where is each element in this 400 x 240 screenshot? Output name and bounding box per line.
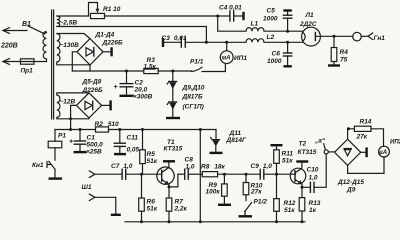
- ground bar (Д11): [210, 152, 223, 154]
- svg-text:~12В: ~12В: [60, 98, 76, 105]
- node C2 junction: [125, 70, 128, 73]
- svg-text:Д5-Д8: Д5-Д8: [82, 79, 102, 86]
- svg-text:75: 75: [340, 57, 348, 64]
- resistor R10: [243, 174, 249, 200]
- wire bridge1 right stub: [103, 51, 111, 53]
- node R13 bus junction: [301, 220, 304, 223]
- capacitor C5: [283, 11, 291, 31]
- svg-text:Д226Б: Д226Б: [82, 87, 104, 94]
- svg-text:~2,5В: ~2,5В: [60, 20, 78, 27]
- svg-text:51к: 51к: [147, 158, 158, 165]
- node R9 junction: [223, 173, 226, 176]
- label R6 51к: [147, 199, 158, 213]
- svg-text:„а“: „а“: [314, 138, 326, 145]
- svg-text:Д9,Д10: Д9,Д10: [182, 85, 205, 92]
- wire L2 to tube: [264, 41, 303, 43]
- wire bridge3 right stub: [361, 151, 366, 153]
- wire R8 to C9: [218, 173, 261, 175]
- node "а": [324, 144, 329, 154]
- svg-text:Д226Б: Д226Б: [102, 40, 124, 47]
- relay contact P1/1: [192, 67, 203, 71]
- node C1 junction: [79, 128, 82, 131]
- svg-text:1,0: 1,0: [309, 175, 318, 182]
- inductor L1: [246, 28, 264, 32]
- label R13 1к: [309, 200, 321, 214]
- label С1 500,0 х25В: [86, 134, 103, 155]
- svg-text:~130В: ~130В: [60, 42, 80, 49]
- resistor R1 (rheostat): [89, 3, 105, 19]
- connector Ш1 pin 1: [89, 171, 122, 178]
- node IP1 junction: [225, 41, 228, 44]
- svg-text:220В: 220В: [0, 43, 18, 50]
- label С5 1000: [263, 8, 278, 23]
- svg-text:L2: L2: [267, 34, 275, 41]
- svg-text:51к: 51к: [282, 157, 293, 164]
- wire bridge2 right stub: [102, 104, 110, 106]
- label С8 1,0: [185, 156, 195, 170]
- svg-text:1000: 1000: [267, 58, 282, 65]
- wire heater line 2 bend to anode line: [205, 27, 207, 43]
- svg-text:2,2к: 2,2к: [174, 206, 188, 213]
- node zener junction: [171, 70, 174, 73]
- svg-text:мА: мА: [222, 56, 231, 62]
- node C11 junction: [118, 128, 121, 131]
- resistor R12: [274, 174, 280, 222]
- svg-text:27к: 27к: [250, 188, 262, 195]
- wire 220V top with arrow: [3, 28, 27, 34]
- zener diode Д10: [167, 102, 176, 110]
- winding ~130В: [57, 34, 60, 63]
- label Т2 КТ315: [298, 140, 317, 156]
- ground bar (Кн1): [49, 177, 63, 179]
- svg-text:(СГ1П): (СГ1П): [183, 104, 204, 111]
- svg-text:100к: 100к: [206, 188, 221, 195]
- svg-text:Д9: Д9: [346, 186, 356, 193]
- wire R14 to meter ИП2: [371, 129, 384, 147]
- node R4 junction: [333, 35, 336, 38]
- svg-text:27к: 27к: [356, 134, 368, 141]
- svg-text:500,0: 500,0: [87, 141, 104, 148]
- capacitor C8: [178, 169, 202, 179]
- wire contact to meter: [202, 64, 225, 72]
- svg-text:С1: С1: [87, 134, 96, 141]
- wire low DC rail: [55, 129, 96, 131]
- winding ~12В: [57, 95, 60, 118]
- capacitor C4: [218, 11, 243, 21]
- svg-text:Д1-Д4: Д1-Д4: [95, 32, 115, 39]
- resistor R9: [222, 174, 228, 204]
- push button Кн1: [47, 161, 55, 178]
- wire node a to bridge3: [328, 151, 334, 153]
- svg-text:В1: В1: [22, 21, 31, 28]
- svg-text:Р1/1: Р1/1: [190, 59, 204, 66]
- label R12 51к: [284, 200, 296, 214]
- wire DC rail 140V: [72, 70, 144, 72]
- svg-text:1,0: 1,0: [186, 163, 195, 170]
- chassis bar (R9): [218, 204, 231, 206]
- diode bridge Д1-Д4: [77, 39, 103, 65]
- wire anode/filament line C3 to L2: [185, 41, 246, 43]
- svg-text:Д12-Д15: Д12-Д15: [337, 179, 364, 186]
- node bridge2 rail junction: [69, 128, 72, 131]
- svg-text:КТ315: КТ315: [164, 146, 183, 153]
- wire heater line top (2.5V to R1): [57, 15, 89, 17]
- svg-text:Д11: Д11: [229, 130, 242, 137]
- chassis bar (Ш1 pin2): [111, 214, 121, 216]
- svg-text:Гн1: Гн1: [374, 35, 386, 42]
- svg-text:Р1/2: Р1/2: [254, 198, 268, 205]
- node T1 emitter junction: [168, 185, 171, 188]
- svg-text:µА: µА: [378, 150, 387, 156]
- svg-text:L1: L1: [251, 21, 259, 28]
- zener diode Д11: [211, 130, 220, 153]
- wire winding12 top to bridge2: [57, 93, 89, 95]
- wire heater step-down to L1: [218, 16, 246, 31]
- wire rail-to-bus vertical: [199, 130, 201, 222]
- svg-text:Кн1: Кн1: [32, 162, 44, 169]
- node R10 junction: [245, 173, 248, 176]
- node long vertical top junction: [199, 128, 202, 131]
- capacitor C11: [114, 130, 125, 154]
- transformer core: [52, 10, 54, 119]
- resistor R5: [140, 130, 146, 175]
- label R14 27к: [356, 118, 372, 140]
- chassis bar (T2 collector): [296, 160, 308, 162]
- node R6 bus junction: [140, 220, 143, 223]
- chassis bar (C6): [283, 65, 291, 67]
- node long vertical bus junction: [199, 220, 202, 223]
- label R11 51к: [282, 151, 294, 165]
- label С10 1,0: [307, 167, 319, 182]
- relay contact P1/2: [245, 203, 252, 216]
- svg-text:С6: С6: [272, 51, 281, 58]
- vacuum diode tube Л1 2Д2С: [302, 27, 353, 46]
- svg-text:Д814Г: Д814Г: [226, 137, 248, 144]
- svg-text:С10: С10: [307, 167, 319, 174]
- wire R1 to C4 node: [105, 15, 218, 17]
- capacitor C3: [164, 38, 185, 48]
- label С2 20,0 х300В: [133, 79, 153, 100]
- resistor R14: [354, 126, 371, 131]
- resistor R3: [144, 68, 158, 73]
- svg-text:+: +: [69, 138, 73, 145]
- inductor L2: [246, 39, 264, 43]
- label С6 1000: [267, 51, 282, 66]
- fuse Пр1: [21, 59, 35, 64]
- chassis bar (C11): [114, 153, 126, 155]
- wire emitter to C8: [169, 174, 178, 187]
- resistor R4: [331, 36, 337, 65]
- connector Ш1 pin 2: [89, 194, 116, 214]
- svg-text:0,05: 0,05: [127, 147, 140, 154]
- label С11 0,05: [127, 134, 140, 153]
- diode bridge Д12-Д15: [335, 139, 361, 165]
- svg-text:ИП2: ИП2: [390, 139, 400, 145]
- label R7 2,2к: [174, 199, 188, 213]
- capacitor C2: [120, 71, 133, 95]
- node C6 junction: [286, 41, 289, 44]
- wire 220V bottom with arrow: [3, 59, 47, 65]
- svg-text:R4: R4: [340, 49, 349, 56]
- wire meter bottom to bridge3 bottom: [348, 157, 384, 173]
- capacitor C10: [302, 154, 326, 192]
- svg-text:КТ315: КТ315: [298, 149, 317, 156]
- wire bridge3 top to R14: [348, 129, 355, 139]
- svg-text:R14: R14: [360, 118, 372, 125]
- resistor R2: [96, 127, 109, 132]
- connector Гн1: [353, 32, 373, 41]
- chassis bar (bridge3): [365, 147, 367, 157]
- svg-text:20,0: 20,0: [134, 86, 148, 93]
- chassis bar (C3 left): [162, 38, 164, 47]
- svg-text:С4 0,01: С4 0,01: [219, 5, 242, 12]
- resistor R13: [299, 187, 305, 222]
- capacitor C7: [122, 169, 141, 179]
- svg-text:Д817Б: Д817Б: [182, 94, 204, 101]
- label Д9,Д10 Д817Б (СГ1П): [182, 85, 205, 111]
- wire bridge2 left elbow to rail: [71, 105, 77, 129]
- svg-text:R1 10: R1 10: [103, 6, 121, 13]
- transistor T1 КТ315: [157, 162, 174, 187]
- resistor R8: [202, 172, 217, 177]
- node C4 junction: [216, 15, 219, 18]
- node heater2 junction: [205, 41, 208, 44]
- chassis bar (P1/2): [239, 215, 253, 217]
- svg-text:1к: 1к: [309, 207, 317, 214]
- capacitor C9: [260, 169, 295, 179]
- chassis bar (R4): [328, 64, 340, 66]
- svg-text:С11: С11: [127, 134, 139, 141]
- chassis bar (bridge2): [109, 100, 111, 110]
- chassis bar (T1 collector): [163, 160, 175, 162]
- wire winding12 bottom to bridge2: [57, 118, 89, 119]
- switch B1: [29, 26, 45, 34]
- svg-text:51к: 51к: [284, 207, 295, 214]
- ground bar (zeners): [166, 117, 180, 119]
- diode bridge Д5-Д8: [76, 93, 101, 118]
- wire winding130 bottom to bridge bottom: [57, 62, 90, 65]
- node R12 bus junction: [275, 220, 278, 223]
- chassis bar (R11 top): [271, 144, 283, 146]
- label Т1 КТ315: [164, 139, 183, 153]
- wire base to T1: [142, 173, 162, 175]
- transformer winding ~2,5В: [57, 16, 60, 27]
- svg-text:С5: С5: [267, 8, 276, 15]
- transformer Тр primary winding: [43, 32, 47, 62]
- node T2 emitter junction: [301, 186, 304, 189]
- node C5 junction: [286, 30, 289, 33]
- svg-text:С8: С8: [185, 156, 194, 163]
- svg-text:Р1: Р1: [58, 132, 66, 139]
- svg-text:1000: 1000: [263, 15, 278, 22]
- resistor R7: [166, 187, 172, 222]
- node R14 corner: [347, 127, 350, 130]
- svg-text:+: +: [114, 84, 118, 91]
- capacitor C6: [283, 42, 291, 66]
- chassis bar (bridge1): [110, 47, 112, 56]
- label R3 1,5к: [144, 57, 157, 70]
- svg-text:С30,01: С30,01: [162, 35, 187, 42]
- chassis bar (C2): [120, 95, 134, 97]
- node R5 junction: [141, 128, 144, 131]
- svg-text:ИП1: ИП1: [234, 55, 247, 62]
- chassis bar (C4): [242, 12, 244, 20]
- node R7 bus junction: [168, 220, 171, 223]
- label R10 27к: [250, 182, 263, 195]
- label R9 100к: [206, 182, 221, 196]
- wire bridge1 left corner elbow: [72, 52, 77, 71]
- svg-text:Т2: Т2: [299, 140, 307, 147]
- node winding12 crossing: [69, 117, 72, 120]
- label Л1 2Д2С: [299, 12, 317, 28]
- meter ИП2 (µА): [378, 146, 389, 157]
- label R5 51к: [147, 151, 158, 165]
- relay coil P1: [48, 130, 62, 161]
- wire heater line bottom (2.5V): [57, 26, 207, 28]
- svg-text:Ш1: Ш1: [82, 184, 92, 191]
- svg-text:2Д2С: 2Д2С: [299, 21, 317, 28]
- svg-text:×300В: ×300В: [133, 94, 153, 101]
- resistor R11: [274, 145, 280, 174]
- capacitor C1: [74, 130, 85, 152]
- label R4 75: [340, 49, 349, 64]
- chassis bar (C1): [74, 151, 87, 153]
- wire bridge1 bottom stub: [89, 65, 91, 71]
- label Д12-Д15 Д9: [337, 179, 364, 194]
- resistor R6: [139, 174, 145, 222]
- svg-text:С2: С2: [135, 79, 144, 86]
- svg-text:Пр1: Пр1: [21, 68, 34, 75]
- svg-text:51к: 51к: [147, 206, 158, 213]
- svg-text:Л1: Л1: [305, 12, 314, 19]
- wire L1 to tube: [264, 30, 303, 32]
- wire bottom bus: [125, 221, 305, 223]
- label Д5-Д8 Д226Б: [82, 79, 104, 94]
- node T1 base junction: [140, 173, 143, 176]
- chassis bar (C5): [283, 9, 291, 11]
- label Д11 Д814Г: [226, 130, 248, 144]
- wire winding130 top to bridge: [57, 34, 90, 39]
- transistor T2 КТ315: [290, 162, 306, 187]
- svg-text:1,5к: 1,5к: [144, 63, 157, 70]
- label Д1-Д4 Д226Б: [95, 32, 124, 47]
- svg-text:×25В: ×25В: [86, 148, 102, 155]
- node T2 base junction: [275, 173, 278, 176]
- meter ИП1 (мА): [220, 42, 233, 63]
- zener diode Д9: [167, 71, 176, 118]
